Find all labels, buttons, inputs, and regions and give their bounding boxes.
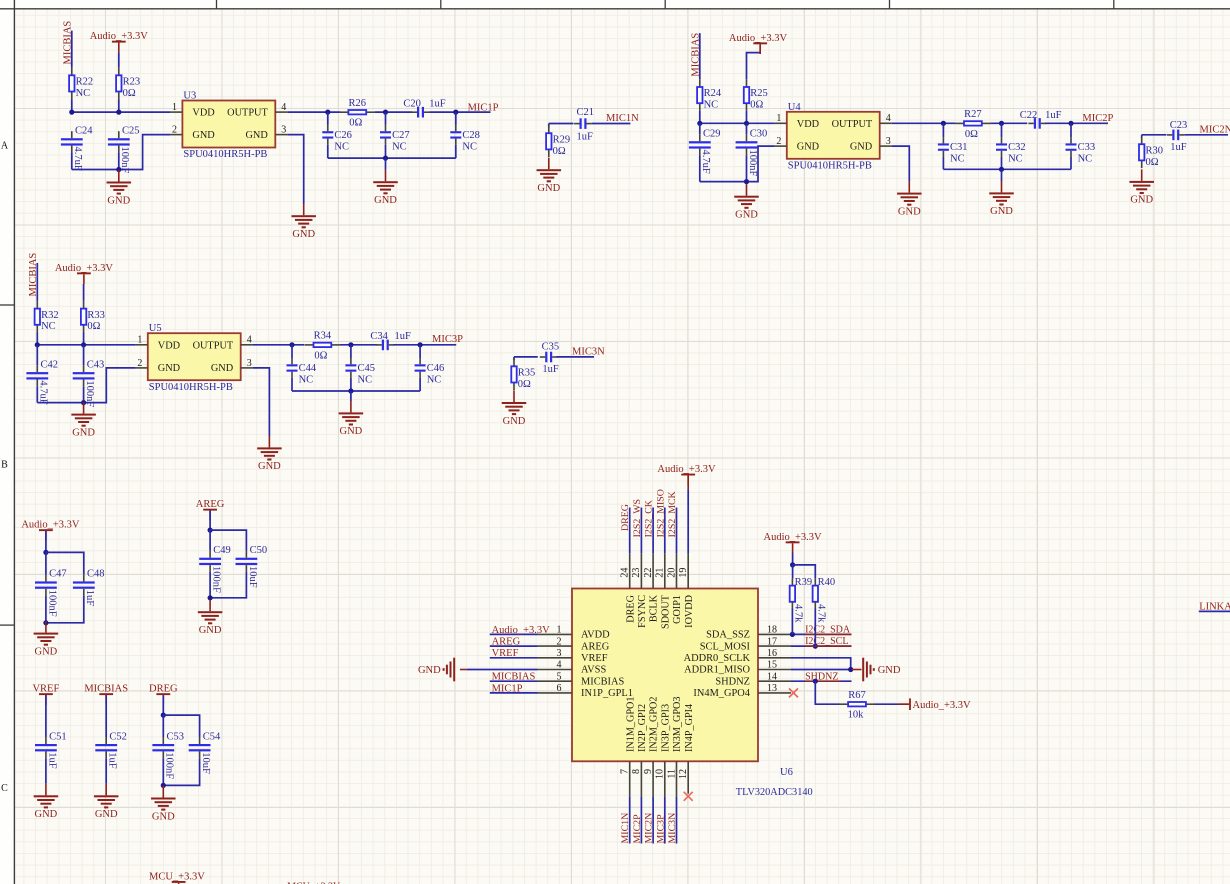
wire Audio jog to R25 xyxy=(747,53,761,80)
junction node C33 xyxy=(1068,121,1073,126)
svg-text:R39: R39 xyxy=(795,577,813,588)
svg-text:BCLK: BCLK xyxy=(649,594,660,622)
svg-text:4.7uF: 4.7uF xyxy=(72,147,83,171)
junction node C45 xyxy=(348,342,353,347)
svg-text:2: 2 xyxy=(776,136,781,147)
pin 8 U6 bottom xyxy=(640,761,642,796)
wire C51 to gnd xyxy=(45,758,47,784)
wire R32 to node xyxy=(36,333,38,345)
svg-text:LINKAG: LINKAG xyxy=(1199,601,1230,612)
svg-text:R29: R29 xyxy=(553,134,571,145)
pin 4 U5 xyxy=(241,344,253,346)
svg-text:C27: C27 xyxy=(392,130,410,141)
wire branch to R40 xyxy=(793,565,816,579)
junction C53 bottom xyxy=(161,783,166,788)
wire R25 to node xyxy=(746,111,748,123)
wire C30 down xyxy=(746,155,748,181)
pin 5 U6 left xyxy=(538,680,573,682)
wire C52 to gnd xyxy=(105,758,107,784)
svg-text:MICBIAS: MICBIAS xyxy=(492,672,536,683)
resistor R34 0ohm xyxy=(305,344,313,346)
svg-text:C47: C47 xyxy=(49,569,67,580)
svg-text:4.7k: 4.7k xyxy=(792,604,803,623)
svg-text:NC: NC xyxy=(950,154,965,165)
svg-text:C50: C50 xyxy=(250,545,268,556)
svg-text:C45: C45 xyxy=(358,363,376,374)
svg-text:10k: 10k xyxy=(848,710,865,721)
IC U3 SPU0410HR5H-PB xyxy=(182,101,275,148)
ground GND under C45 xyxy=(350,401,352,413)
wire pin3 to ground xyxy=(287,135,303,204)
resistor R26 0ohm xyxy=(340,111,348,113)
svg-text:7: 7 xyxy=(620,769,631,774)
svg-text:GND: GND xyxy=(850,142,873,153)
capacitor C34 1uF series xyxy=(376,344,381,346)
svg-text:4: 4 xyxy=(281,102,286,113)
svg-text:1uF: 1uF xyxy=(577,132,594,143)
svg-text:21: 21 xyxy=(655,568,666,578)
svg-text:MIC3P: MIC3P xyxy=(432,334,463,345)
svg-text:0Ω: 0Ω xyxy=(518,379,531,390)
svg-text:GND: GND xyxy=(1130,195,1153,206)
wire I2S2_MISO column xyxy=(664,508,666,554)
wire R39 to SDA xyxy=(791,609,793,635)
ground GND under C53 xyxy=(151,798,176,800)
power port Audio_+3.3V (circuit 1) xyxy=(112,41,126,43)
svg-text:VDD: VDD xyxy=(192,108,215,119)
wire pin4 to node C26 xyxy=(287,111,340,113)
power port Audio_+3.3V decoupling xyxy=(39,529,53,531)
svg-text:DREG: DREG xyxy=(625,594,636,622)
resistor R40 4.7k xyxy=(814,579,816,586)
svg-text:2: 2 xyxy=(137,358,142,369)
svg-text:1uF: 1uF xyxy=(1170,142,1187,153)
svg-text:12: 12 xyxy=(678,769,689,779)
wire C43 down xyxy=(83,386,85,402)
wire VDD rail to pin 1 U4 xyxy=(700,122,775,124)
svg-text:100nF: 100nF xyxy=(164,752,175,779)
wire DREG column xyxy=(629,508,631,554)
capacitor C22 1uF series xyxy=(1028,122,1033,124)
ground GND under C30 xyxy=(746,184,748,196)
junction node C31 xyxy=(941,121,946,126)
svg-text:AVSS: AVSS xyxy=(581,665,606,676)
svg-text:C32: C32 xyxy=(1008,142,1026,153)
ground GND under R30 xyxy=(1141,169,1143,181)
power port Audio_+3.3V right of R67 (sideways) xyxy=(899,703,910,705)
svg-text:GND: GND xyxy=(152,811,175,822)
pin 3 U3 xyxy=(275,134,287,136)
junction node R32 xyxy=(35,342,40,347)
wire DREG to C53 xyxy=(162,695,164,715)
wire C48 down xyxy=(46,596,84,623)
wire corner to R29 xyxy=(548,124,550,128)
wire gnd rail C44-C46 xyxy=(292,390,420,392)
svg-text:GND: GND xyxy=(258,461,281,472)
pin 15 U6 right xyxy=(758,669,791,671)
svg-text:GND: GND xyxy=(990,206,1013,217)
svg-text:GND: GND xyxy=(797,142,820,153)
svg-text:1uF: 1uF xyxy=(395,331,412,342)
wire net VREF to pin 3 xyxy=(490,657,538,659)
junction node R22 xyxy=(69,110,74,115)
svg-text:IN2P_GPI2: IN2P_GPI2 xyxy=(637,704,648,752)
wire I2C2_SDA row xyxy=(791,633,852,635)
wire Audio to R33 xyxy=(83,284,85,301)
svg-text:MIC2N: MIC2N xyxy=(644,813,655,844)
svg-text:NC: NC xyxy=(1008,154,1023,165)
wire VDD rail to pin 1 xyxy=(72,111,171,113)
junction above R39 xyxy=(790,562,795,567)
wire net MIC1P to pin 6 xyxy=(490,692,538,694)
wire C22 to node C33 xyxy=(1045,122,1108,124)
svg-text:0Ω: 0Ω xyxy=(750,100,763,111)
svg-text:0Ω: 0Ω xyxy=(349,118,362,129)
wire MIC2P column bottom xyxy=(640,797,642,844)
svg-text:I2S2_WS: I2S2_WS xyxy=(632,499,643,537)
svg-text:GND: GND xyxy=(374,195,397,206)
pin 17 U6 right xyxy=(758,645,791,647)
power port Audio_+3.3V (circuit 3) xyxy=(77,272,91,274)
svg-text:15: 15 xyxy=(767,660,777,671)
capacitor C43 100nF xyxy=(83,345,85,365)
wire MIC2N branch horizontal xyxy=(1142,134,1167,136)
svg-text:R35: R35 xyxy=(518,368,536,379)
svg-text:MIC1P: MIC1P xyxy=(492,683,523,694)
wire C24 down xyxy=(71,152,73,169)
junction gnd rail xyxy=(383,156,388,161)
pin 2 U5 xyxy=(136,367,148,369)
svg-text:C42: C42 xyxy=(41,359,59,370)
svg-text:C29: C29 xyxy=(703,129,721,140)
capacitor C47 100nF xyxy=(45,552,47,574)
svg-text:SPU0410HR5H-PB: SPU0410HR5H-PB xyxy=(788,161,872,172)
svg-text:GND: GND xyxy=(35,646,58,657)
capacitor C45 NC xyxy=(350,345,352,358)
svg-text:R24: R24 xyxy=(704,88,722,99)
svg-text:TLV320ADC3140: TLV320ADC3140 xyxy=(736,787,813,798)
svg-text:R26: R26 xyxy=(349,98,367,109)
junction node C32 xyxy=(999,121,1004,126)
pin 3 U5 xyxy=(241,367,253,369)
pin 24 U6 top xyxy=(629,553,631,588)
pin 16 U6 right xyxy=(758,657,791,659)
svg-text:C51: C51 xyxy=(49,731,67,742)
svg-text:2: 2 xyxy=(557,636,562,647)
svg-text:OUTPUT: OUTPUT xyxy=(832,119,873,130)
junction node C27 xyxy=(383,110,388,115)
junction node R33 xyxy=(81,342,86,347)
svg-text:1uF: 1uF xyxy=(1045,110,1062,121)
svg-text:GND: GND xyxy=(199,625,222,636)
wire ground rail under C42 C43 to pin 2 U5 xyxy=(37,368,136,403)
svg-text:16: 16 xyxy=(767,648,777,659)
wire MIC3N branch horizontal xyxy=(514,356,538,358)
svg-text:10uF: 10uF xyxy=(247,566,258,588)
svg-text:MIC1P: MIC1P xyxy=(468,102,499,113)
svg-text:22: 22 xyxy=(643,568,654,578)
wire SHDNZ row xyxy=(791,680,852,682)
junction R40 to SCL xyxy=(813,644,818,649)
svg-text:1uF: 1uF xyxy=(107,752,118,769)
pin 12 U6 bottom xyxy=(687,761,689,793)
wire net AREG to pin 2 xyxy=(490,645,538,647)
capacitor C53 100nF xyxy=(162,715,164,737)
svg-text:1: 1 xyxy=(557,625,562,636)
svg-text:19: 19 xyxy=(678,568,689,578)
svg-text:C31: C31 xyxy=(950,142,968,153)
pin 2 U6 left xyxy=(538,645,573,647)
svg-text:DREG: DREG xyxy=(620,504,631,531)
svg-text:23: 23 xyxy=(631,568,642,578)
power port VREF decoupling xyxy=(39,693,53,695)
svg-text:C20: C20 xyxy=(403,98,421,109)
wire C54 down xyxy=(163,758,199,785)
wire MIC2N column bottom xyxy=(652,797,654,844)
wire down to R39 xyxy=(792,565,794,579)
svg-text:C43: C43 xyxy=(87,359,105,370)
svg-text:GND: GND xyxy=(107,195,130,206)
svg-text:ADDR0_SCLK: ADDR0_SCLK xyxy=(684,653,751,664)
wire C25 down xyxy=(118,152,120,169)
pin 13 U6 right xyxy=(758,692,791,694)
svg-text:C26: C26 xyxy=(334,130,352,141)
capacitor C21 1uF series xyxy=(574,123,579,125)
svg-text:0Ω: 0Ω xyxy=(123,88,136,99)
ground GND under C49 xyxy=(209,600,211,612)
svg-text:FSYNC: FSYNC xyxy=(637,595,648,628)
resistor R29 0ohm xyxy=(548,126,550,133)
ground GND under R35 xyxy=(513,391,515,403)
wire gnd rail C26-C28 xyxy=(328,157,456,159)
junction node C26 xyxy=(325,110,330,115)
capacitor C30 100nF xyxy=(746,123,748,134)
wire MIC1N column bottom xyxy=(629,797,631,844)
pin 3 U4 xyxy=(880,145,892,147)
wire R24 to node xyxy=(699,111,701,123)
svg-text:C33: C33 xyxy=(1078,142,1096,153)
wire LINKAGE right edge xyxy=(1199,610,1230,612)
pin 20 U6 top xyxy=(676,553,678,588)
junction SHDNZ xyxy=(813,679,818,684)
IC U5 SPU0410HR5H-PB xyxy=(148,333,241,380)
svg-text:0Ω: 0Ω xyxy=(1146,157,1159,168)
capacitor C51 1uF xyxy=(45,737,47,744)
wire ground rail under C29 C30 to pin 2 U4 xyxy=(700,146,775,182)
junction C49 top xyxy=(208,528,213,533)
svg-text:SPU0410HR5H-PB: SPU0410HR5H-PB xyxy=(183,149,267,160)
svg-text:IN3P_GPI3: IN3P_GPI3 xyxy=(660,704,671,752)
svg-text:3: 3 xyxy=(247,358,252,369)
svg-text:NC: NC xyxy=(358,375,373,386)
svg-text:2: 2 xyxy=(172,125,177,136)
capacitor C50 10uF xyxy=(245,551,247,558)
resistor R35 0ohm xyxy=(513,359,515,366)
ground GND under C52 xyxy=(105,784,107,796)
svg-text:IN4M_GPO4: IN4M_GPO4 xyxy=(693,688,750,699)
junction node C46 xyxy=(418,342,423,347)
svg-text:U6: U6 xyxy=(780,767,793,778)
resistor R25 0ohm xyxy=(746,79,748,86)
pin 21 U6 top xyxy=(664,553,666,588)
svg-text:I2S2_CK: I2S2_CK xyxy=(644,499,655,537)
wire I2S2_WS column xyxy=(640,508,642,554)
wire R23 to node xyxy=(118,99,120,112)
wire R34 to node C45 xyxy=(340,344,377,346)
wire pin3 U4 to ground xyxy=(892,146,910,181)
junction node R25 xyxy=(744,121,749,126)
capacitor C25 100nF xyxy=(118,131,120,138)
svg-text:ADDR1_MISO: ADDR1_MISO xyxy=(684,665,750,676)
wire MIC3N column bottom xyxy=(676,797,678,844)
pin 1 U6 left xyxy=(538,633,573,635)
wire I2S2_CK column xyxy=(652,508,654,554)
svg-text:SPU0410HR5H-PB: SPU0410HR5H-PB xyxy=(149,382,233,393)
capacitor C52 1uF xyxy=(105,737,107,744)
svg-text:C46: C46 xyxy=(427,363,445,374)
svg-text:U3: U3 xyxy=(183,91,196,102)
power port Audio_+3.3V (circuit 2) xyxy=(753,42,767,44)
svg-text:NC: NC xyxy=(462,141,477,152)
svg-text:24: 24 xyxy=(620,568,631,578)
svg-text:4: 4 xyxy=(557,660,562,671)
svg-text:MIC3P: MIC3P xyxy=(655,814,666,844)
svg-text:NC: NC xyxy=(392,141,407,152)
svg-text:MIC3N: MIC3N xyxy=(572,347,605,358)
svg-text:4: 4 xyxy=(247,335,252,346)
svg-text:IN1M_GPO1: IN1M_GPO1 xyxy=(625,697,636,752)
wire C20 to node C28 xyxy=(429,111,490,113)
svg-text:NC: NC xyxy=(704,100,719,111)
wire corner to R30 xyxy=(1141,135,1143,139)
svg-text:20: 20 xyxy=(666,568,677,578)
svg-text:GND: GND xyxy=(95,809,118,820)
svg-text:C22: C22 xyxy=(1020,110,1038,121)
svg-text:U5: U5 xyxy=(149,323,162,334)
svg-text:IN2M_GPO2: IN2M_GPO2 xyxy=(649,697,660,752)
capacitor C31 NC xyxy=(942,123,944,137)
svg-text:SDA_SSZ: SDA_SSZ xyxy=(706,630,750,641)
capacitor C46 NC xyxy=(419,345,421,358)
junction gnd node C43 xyxy=(81,400,86,405)
capacitor C44 NC xyxy=(291,345,293,358)
svg-text:1: 1 xyxy=(172,102,177,113)
svg-text:Audio_+3.3V: Audio_+3.3V xyxy=(55,263,114,274)
svg-text:GND: GND xyxy=(245,130,268,141)
svg-text:NC: NC xyxy=(334,141,349,152)
svg-text:1uF: 1uF xyxy=(84,590,95,607)
svg-text:C54: C54 xyxy=(203,731,221,742)
capacitor C28 NC xyxy=(455,112,457,125)
svg-text:10: 10 xyxy=(655,769,666,779)
svg-text:14: 14 xyxy=(767,671,777,682)
wire power to C47 xyxy=(45,531,47,552)
wire I2S2_MCK column xyxy=(676,508,678,554)
wire C35 to MIC3N xyxy=(557,356,595,358)
svg-text:MIC2P: MIC2P xyxy=(1082,113,1113,124)
IC U6 TLV320ADC3140 xyxy=(572,589,758,762)
svg-text:MICBIAS: MICBIAS xyxy=(84,684,128,695)
wire C34 to node C46 xyxy=(394,344,457,346)
svg-text:R25: R25 xyxy=(750,88,768,99)
svg-text:1: 1 xyxy=(776,113,781,124)
svg-text:C48: C48 xyxy=(87,569,105,580)
capacitor C54 10uF xyxy=(199,737,201,744)
svg-text:C35: C35 xyxy=(542,341,560,352)
svg-text:VREF: VREF xyxy=(492,648,519,659)
pin 19 U6 top xyxy=(687,553,689,588)
capacitor C23 1uF series xyxy=(1167,134,1172,136)
svg-text:GND: GND xyxy=(158,363,181,374)
svg-text:NC: NC xyxy=(76,88,91,99)
svg-text:VREF: VREF xyxy=(32,684,59,695)
svg-text:MIC2P: MIC2P xyxy=(632,814,643,844)
svg-text:NC: NC xyxy=(427,375,442,386)
svg-text:13: 13 xyxy=(767,683,777,694)
ground GND under R29 xyxy=(548,158,550,170)
wire R27 to node C32 xyxy=(990,122,1027,124)
svg-text:9: 9 xyxy=(643,769,654,774)
wire net Audio_+3.3V to pin 1 xyxy=(490,633,538,635)
junction C47 bottom xyxy=(43,620,48,625)
svg-text:0Ω: 0Ω xyxy=(553,146,566,157)
pin 1 U3 xyxy=(170,111,182,113)
wire branch to C48 xyxy=(46,552,84,574)
svg-text:AVDD: AVDD xyxy=(581,630,610,641)
pin 14 U6 right xyxy=(758,680,791,682)
svg-text:1uF: 1uF xyxy=(429,98,446,109)
ground GND under C47 xyxy=(45,621,47,633)
pin 7 U6 bottom xyxy=(629,761,631,796)
svg-text:GND: GND xyxy=(72,427,95,438)
wire power to junction R39 xyxy=(792,553,794,565)
svg-text:MIC3N: MIC3N xyxy=(667,813,678,844)
svg-text:GND: GND xyxy=(340,426,363,437)
svg-text:Audio_+3.3V: Audio_+3.3V xyxy=(764,532,823,543)
wire C42 down xyxy=(36,386,38,402)
junction ADDR rows xyxy=(848,667,853,672)
wire ground rail under C24 C25 to pin 2 xyxy=(72,135,171,170)
svg-text:C53: C53 xyxy=(167,731,185,742)
svg-text:R27: R27 xyxy=(964,109,982,120)
power port Audio_+3.3V above R39 xyxy=(786,541,800,543)
svg-text:IN4P_GPI4: IN4P_GPI4 xyxy=(684,704,695,752)
pin 23 U6 top xyxy=(640,553,642,588)
resistor R32 NC xyxy=(36,301,38,308)
svg-text:100nF: 100nF xyxy=(46,590,57,617)
svg-text:NC: NC xyxy=(299,375,314,386)
capacitor C20 1uF series xyxy=(412,111,417,113)
svg-text:C28: C28 xyxy=(462,130,480,141)
svg-text:C49: C49 xyxy=(213,545,231,556)
svg-text:C30: C30 xyxy=(750,129,768,140)
svg-text:GND: GND xyxy=(503,416,526,427)
wire MIC1N branch horizontal xyxy=(549,123,574,125)
svg-text:100nF: 100nF xyxy=(211,566,222,593)
capacitor C26 NC xyxy=(327,112,329,125)
capacitor C27 NC xyxy=(385,112,387,125)
junction R39 to SDA xyxy=(790,632,795,637)
junction C49 bottom xyxy=(208,595,213,600)
wire R33 to node xyxy=(83,333,85,345)
pin 4 U6 left xyxy=(538,669,573,671)
svg-text:1: 1 xyxy=(137,335,142,346)
resistor R67 10k xyxy=(840,703,848,705)
wire R26 to node C27 xyxy=(375,111,412,113)
ground GND pin3 U3 xyxy=(303,204,305,216)
wire C50 down xyxy=(210,572,246,598)
junction gnd node C30 xyxy=(744,179,749,184)
